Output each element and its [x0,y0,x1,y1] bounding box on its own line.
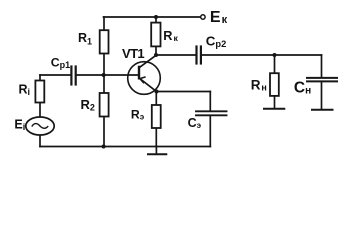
svg-text:Rэ: Rэ [131,108,145,122]
svg-text:R2: R2 [81,97,95,113]
svg-text:Cэ: Cэ [188,116,202,130]
svg-text:Eк: Eк [210,9,228,26]
svg-text:R1: R1 [78,31,92,47]
svg-text:VT1: VT1 [122,46,144,61]
svg-text:Rк: Rк [163,29,178,43]
svg-text:Rн: Rн [251,77,267,92]
svg-text:Ri: Ri [19,83,31,97]
svg-text:Ei: Ei [14,118,25,132]
svg-text:Cр1: Cр1 [51,56,70,71]
svg-text:Cр2: Cр2 [206,33,226,49]
